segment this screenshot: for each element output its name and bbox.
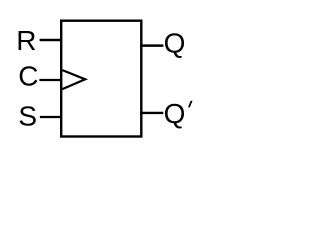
- svg-text:S: S: [18, 101, 37, 132]
- wire Q' output: [140, 112, 163, 114]
- flip-flop body U1: [61, 21, 141, 137]
- wire S input: [40, 116, 62, 118]
- clock edge-trigger triangle: [62, 70, 85, 89]
- svg-text:Q: Q: [164, 98, 186, 129]
- wire R input: [40, 39, 62, 41]
- wire Q output: [140, 44, 163, 47]
- prime mark of Q': [188, 101, 193, 108]
- svg-text:R: R: [16, 25, 36, 56]
- svg-text:C: C: [18, 61, 38, 92]
- wire C input: [39, 79, 62, 81]
- svg-text:Q: Q: [164, 27, 186, 58]
